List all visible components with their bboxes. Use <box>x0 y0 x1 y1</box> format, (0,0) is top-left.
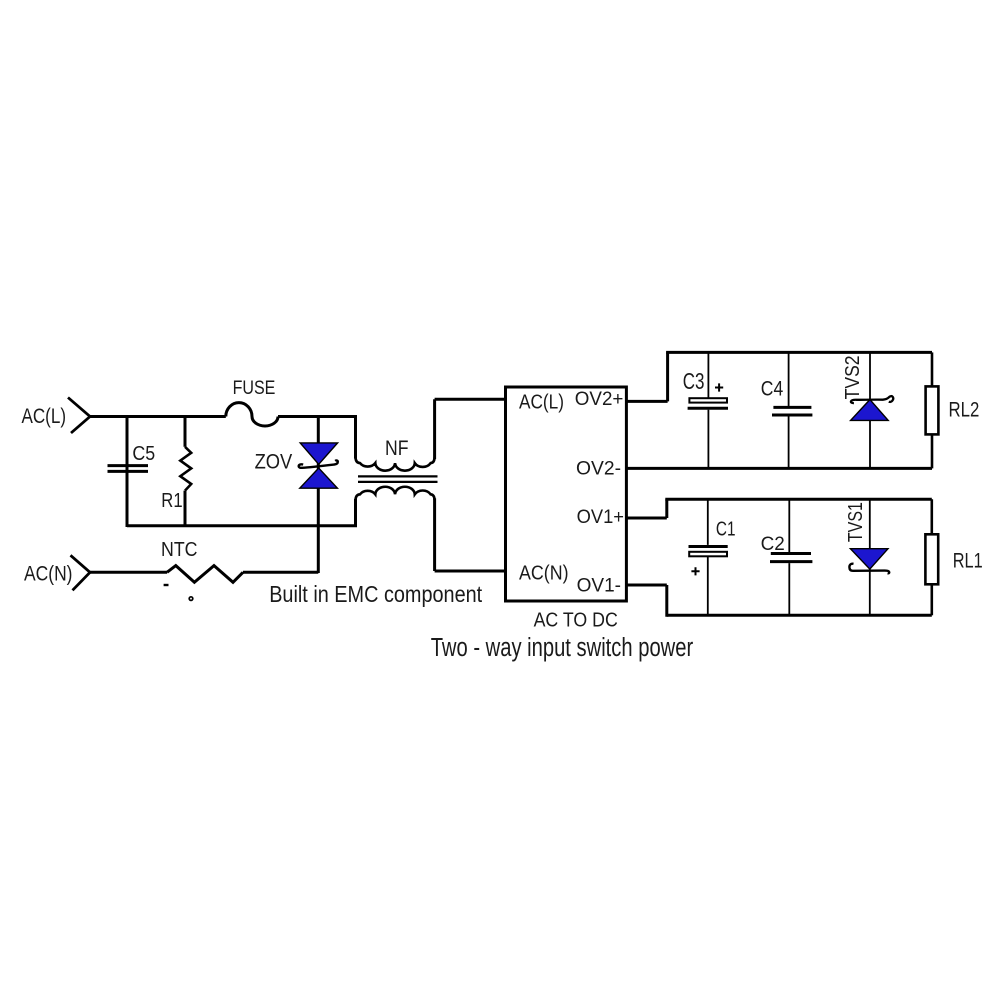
capacitor C4 bottom wire <box>788 417 790 469</box>
wire OV1 top rail <box>665 498 932 501</box>
svg-text:C3: C3 <box>683 368 705 394</box>
small circle mark <box>189 597 193 601</box>
resistor RL2 body <box>926 386 939 434</box>
svg-text:NTC: NTC <box>161 539 198 561</box>
diode TVS1 curved bar <box>849 564 889 574</box>
capacitor C4 plates <box>772 407 812 415</box>
capacitor C1 top wire <box>707 499 709 545</box>
wire OV1+ pin <box>626 499 666 518</box>
svg-text:Two - way input switch power: Two - way input switch power <box>431 634 694 662</box>
svg-text:AC TO DC: AC TO DC <box>534 609 618 632</box>
capacitor C5 branch top wire <box>126 415 129 527</box>
svg-text:TVS2: TVS2 <box>842 355 864 399</box>
capacitor C3 top plate <box>689 398 727 402</box>
svg-text:C4: C4 <box>761 376 783 401</box>
svg-text:C2: C2 <box>761 533 785 555</box>
svg-text:FUSE: FUSE <box>233 377 276 399</box>
inductor NF core lines <box>358 476 438 482</box>
svg-text:AC(L): AC(L) <box>22 405 67 428</box>
svg-text:RL2: RL2 <box>949 398 980 422</box>
svg-text:AC(L): AC(L) <box>519 391 564 413</box>
svg-text:TVS1: TVS1 <box>845 502 867 542</box>
capacitor C2 bottom wire <box>788 563 790 615</box>
varistor ZOV bottom triangle <box>300 468 338 488</box>
wire fuse to NF loop corner <box>278 415 357 418</box>
resistor RL2 top wire <box>931 352 934 386</box>
diode TVS1 triangle <box>850 549 888 569</box>
svg-text:OV1-: OV1- <box>577 574 621 596</box>
converter box AC TO DC <box>506 387 627 601</box>
resistor RL1 body <box>925 534 938 584</box>
thermistor NTC zigzag <box>167 566 243 583</box>
diode TVS2 vertical wire <box>869 352 871 468</box>
capacitor C1 bottom wire <box>707 556 709 615</box>
capacitor C1 bottom plate <box>689 552 727 557</box>
wire OV2+ pin <box>626 352 667 401</box>
svg-text:C5: C5 <box>132 443 155 465</box>
wire AC(N) to NTC <box>89 571 167 574</box>
capacitor C3 top wire <box>707 352 709 398</box>
varistor ZOV curved bar <box>299 460 338 467</box>
diode TVS2 curved bar <box>851 396 893 403</box>
fuse FUSE <box>226 403 278 426</box>
plus mark C3 <box>715 383 723 391</box>
inductor NF left vertical wire <box>354 415 357 527</box>
capacitor C2 plates <box>770 554 812 562</box>
resistor R1 top wire <box>184 415 187 447</box>
diode TVS2 triangle <box>851 400 889 421</box>
inductor NF top winding <box>356 458 435 471</box>
wire OV1 bottom rail <box>667 614 932 617</box>
resistor RL1 top wire <box>930 499 933 534</box>
resistor R1 zigzag <box>180 447 191 491</box>
capacitor C3 bottom plate <box>688 407 728 410</box>
svg-text:OV1+: OV1+ <box>577 506 624 528</box>
diode TVS1 vertical wire <box>869 499 871 615</box>
svg-text:C1: C1 <box>716 518 736 541</box>
svg-text:AC(N): AC(N) <box>519 562 569 584</box>
wire NTC to ZOV node <box>243 571 318 574</box>
input terminal AC(L) chevron <box>68 398 90 434</box>
wire OV1- pin <box>626 585 666 617</box>
wire AC(L) to fuse <box>89 415 226 418</box>
svg-text:OV2+: OV2+ <box>575 388 624 410</box>
capacitor C2 top wire <box>788 499 790 552</box>
input terminal AC(N) chevron <box>71 555 91 590</box>
svg-text:ZOV: ZOV <box>255 451 293 474</box>
resistor RL2 bottom wire <box>931 434 934 468</box>
plus mark C1 <box>691 567 699 575</box>
resistor R1 bottom wire <box>184 491 187 527</box>
varistor ZOV vertical wire <box>317 415 320 573</box>
capacitor C1 top plate <box>689 545 728 548</box>
wire OV2- rail <box>626 467 932 470</box>
minus mark under NTC <box>164 584 169 586</box>
resistor RL1 bottom wire <box>930 584 933 615</box>
varistor ZOV top triangle <box>300 443 337 464</box>
svg-text:OV2-: OV2- <box>576 457 621 479</box>
capacitor C4 top wire <box>788 352 790 406</box>
wire OV2 top rail <box>666 351 932 354</box>
svg-text:NF: NF <box>385 437 409 460</box>
svg-text:R1: R1 <box>161 490 182 512</box>
svg-text:AC(N): AC(N) <box>24 562 73 585</box>
wire bottom of EMC loop <box>127 524 357 527</box>
capacitor C3 bottom wire <box>707 410 709 469</box>
wire NF top to box <box>435 399 507 459</box>
capacitor C5 plates <box>108 466 149 472</box>
wire NF bottom to box <box>435 498 507 571</box>
svg-text:RL1: RL1 <box>953 548 983 572</box>
inductor NF bottom winding <box>356 487 435 500</box>
svg-text:Built in EMC component: Built in EMC component <box>269 581 483 607</box>
